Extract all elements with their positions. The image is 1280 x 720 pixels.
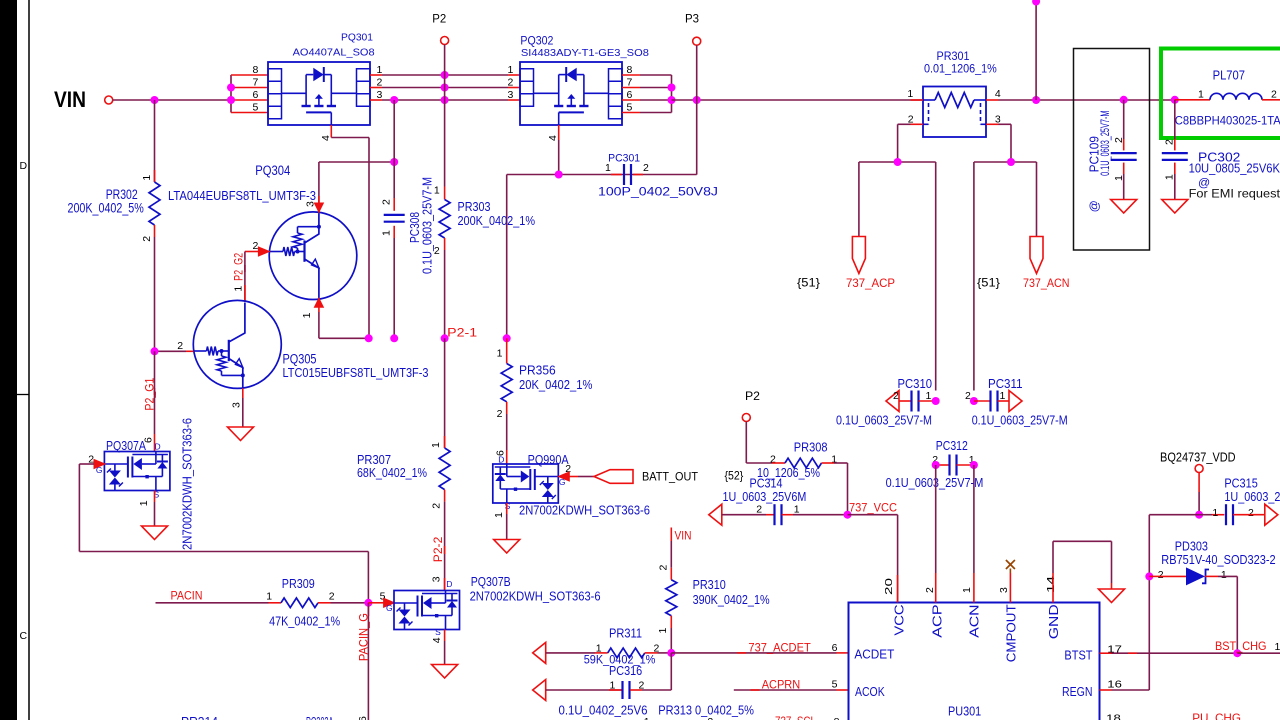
svg-text:1: 1	[301, 312, 313, 318]
pin number PR356 pin2	[497, 408, 503, 420]
pin number CMPOUT 3	[998, 587, 1010, 593]
pin name ACN	[968, 604, 982, 637]
pin letter PQ307B D	[446, 579, 452, 589]
pin number PU301 pin6	[832, 642, 838, 654]
svg-text:VIN: VIN	[675, 529, 692, 543]
label PQ301 refdes	[341, 33, 373, 44]
resistor PR309	[281, 598, 318, 608]
svg-text:68K_0402_1%: 68K_0402_1%	[357, 465, 427, 480]
svg-text:737_VCC: 737_VCC	[849, 501, 897, 515]
capacitor PC301	[611, 164, 643, 185]
pin number PQ307A pin2	[88, 454, 94, 466]
pin letter PQ307B S	[435, 627, 441, 637]
label PR308 refdes	[794, 440, 828, 454]
P3 terminal circle	[693, 37, 701, 45]
pin stub PC308 pin2	[393, 198, 395, 211]
pin numbers PC312	[932, 454, 975, 466]
pin stub PC109 pin1	[1123, 163, 1125, 200]
svg-text:PQ990A: PQ990A	[528, 452, 569, 467]
svg-text:ACPRN: ACPRN	[762, 678, 801, 692]
pin numbers PC315	[1212, 507, 1254, 519]
pin number PR309 pin2	[329, 590, 335, 602]
svg-text:1: 1	[430, 442, 442, 448]
junction dot 737_VCC node	[844, 511, 852, 519]
net label VIN (red)	[675, 529, 692, 543]
pin numbers PC314	[756, 504, 800, 516]
svg-text:PQ307B: PQ307B	[471, 574, 511, 589]
diode PD303 (schottky)	[1149, 567, 1237, 585]
svg-text:PU301: PU301	[948, 703, 981, 718]
label PR310 refdes	[693, 578, 726, 592]
transistor PQ305 (LTC015EUBFS8TL digital NPN)	[193, 300, 281, 388]
label PL707 refdes	[1213, 68, 1245, 82]
svg-text:P2: P2	[432, 14, 446, 26]
svg-text:BST_CHG: BST_CHG	[1215, 639, 1267, 653]
label PQ990A value	[519, 503, 650, 518]
label PR301 value	[924, 62, 997, 76]
junction dot PC310 pin1	[932, 397, 940, 405]
junction dot PQ302 pin4 node	[555, 171, 563, 179]
svg-text:0.1U_0603_25V7-M: 0.1U_0603_25V7-M	[420, 177, 435, 274]
svg-text:PQ302: PQ302	[520, 35, 553, 47]
ground symbol PQ307B source	[432, 665, 458, 679]
label PC308 refdes	[407, 212, 422, 243]
svg-text:2N7002KDWH_SOT363-6: 2N7002KDWH_SOT363-6	[519, 503, 650, 518]
svg-text:390K_0402_1%: 390K_0402_1%	[693, 593, 770, 607]
inductor PL707	[1175, 93, 1280, 99]
label PQ305 value	[283, 365, 429, 380]
svg-text:PQ301: PQ301	[341, 33, 373, 44]
svg-text:2: 2	[434, 245, 440, 257]
pin stub PR301 pin4	[986, 99, 1074, 101]
label For EMI request	[1189, 189, 1280, 201]
svg-text:20: 20	[883, 578, 895, 595]
wire GND to ground	[1053, 541, 1112, 589]
page left black margin bar	[0, 0, 17, 720]
svg-text:C: C	[20, 630, 28, 642]
pin stub PQ305 pin3	[242, 388, 244, 427]
svg-text:2: 2	[643, 162, 649, 174]
label PR356 refdes	[519, 363, 556, 378]
net label PU_CHG (partial)	[1192, 711, 1241, 720]
pin number PQ990A pin6	[495, 450, 507, 456]
pin number PQ990A pin2	[565, 463, 571, 475]
pin stub ACP	[935, 465, 937, 603]
svg-text:2: 2	[253, 240, 259, 252]
wire P2 lower to PR308	[746, 422, 772, 464]
net label P2-2	[433, 537, 445, 563]
port BATT_OUT flag	[594, 470, 633, 484]
svg-text:G: G	[386, 603, 393, 613]
svg-text:ACOK: ACOK	[855, 685, 885, 699]
pin number PR307 pin1	[430, 442, 442, 448]
label PC311 value	[972, 414, 1068, 428]
label PC310 value	[836, 414, 932, 428]
pin number PR310 pin2	[658, 565, 670, 571]
wire P2 vertical	[444, 45, 446, 187]
svg-text:2N7002KDWH_SOT363-6: 2N7002KDWH_SOT363-6	[180, 418, 195, 550]
label PC314 refdes	[750, 477, 783, 491]
resistor PR303	[439, 200, 450, 239]
svg-text:PC312: PC312	[936, 439, 968, 453]
pin number PR308 pin2	[770, 454, 776, 466]
capacitor PC302	[1162, 153, 1188, 160]
svg-text:1: 1	[232, 286, 244, 292]
pin name BTST	[1064, 649, 1092, 663]
label PR313 value	[658, 704, 754, 718]
svg-text:BTST: BTST	[1064, 649, 1092, 663]
port 737_ACP arrow	[852, 237, 865, 274]
pin stub PQ990A pin1	[506, 503, 508, 540]
pin stub PR302 pin2	[154, 225, 156, 351]
label PC316 refdes	[609, 664, 642, 678]
svg-text:1: 1	[907, 88, 913, 100]
svg-text:D: D	[155, 442, 161, 452]
wire bracket PQ301 left pins	[227, 75, 268, 113]
label PC310 refdes	[898, 377, 933, 391]
net label VIN (input)	[54, 87, 86, 112]
pin number PC109 pin2	[1113, 137, 1125, 143]
wire PQ304 emitter to P2-1 row	[319, 312, 369, 338]
port arrow PR311 pin1	[533, 642, 546, 663]
pin numbers PC301	[605, 162, 649, 174]
pin number PR302 pin1	[141, 175, 153, 181]
transistor PQ301 (P-MOSFET AO4407AL_SO8)	[268, 62, 370, 125]
svg-text:200K_0402_5%: 200K_0402_5%	[68, 201, 144, 216]
pin stub PQ990A pin6	[506, 450, 508, 464]
ground symbol PC109	[1111, 200, 1137, 214]
net label ACPRN	[751, 678, 801, 692]
pin number PQ307A pin1	[138, 500, 150, 506]
svg-text:2: 2	[1248, 507, 1254, 519]
svg-text:2: 2	[707, 716, 713, 720]
svg-text:1: 1	[961, 587, 973, 593]
pin number VCC 20	[883, 578, 895, 595]
svg-text:RB751V-40_SOD323-2: RB751V-40_SOD323-2	[1161, 553, 1275, 567]
pin number PC302 pin2	[1164, 139, 1176, 145]
pin stub PQ307A pin1	[154, 491, 156, 527]
pin letter PQ990A S	[505, 501, 511, 511]
label PC308 value	[420, 177, 435, 274]
label PC301 refdes	[608, 153, 640, 165]
svg-text:16: 16	[1107, 679, 1122, 691]
sheet border line	[17, 0, 29, 720]
transistor PQ304 (LTA044EUBFS8TL digital NPN)	[269, 212, 357, 300]
port 737_ACN arrow	[1030, 237, 1043, 274]
svg-text:6: 6	[357, 716, 369, 720]
svg-text:PC311: PC311	[988, 377, 1023, 391]
pin number REGN 16	[1107, 679, 1122, 691]
label PQ302 refdes	[520, 35, 553, 47]
pin number PR311 pin1	[596, 643, 602, 655]
svg-text:1: 1	[266, 590, 272, 602]
net label BST_CHG	[1128, 639, 1267, 653]
label PR309 refdes	[282, 576, 315, 591]
label PQ305 refdes	[283, 352, 317, 367]
port arrow PC314 pin2	[709, 504, 722, 525]
net label 737_ACDET	[737, 641, 811, 655]
net label P2_G2	[233, 253, 245, 281]
svg-text:ACN: ACN	[968, 604, 982, 637]
pin number PQ301 pin4	[320, 135, 332, 141]
svg-text:D: D	[20, 160, 28, 172]
net label P2-1	[447, 327, 477, 339]
pin numbers PC316	[610, 680, 645, 692]
op-amp/controller PU301 (BQ24737) box	[849, 603, 1100, 720]
pin number 6 (partial)	[357, 716, 369, 720]
net label 737_ACP	[846, 276, 895, 290]
svg-text:P2: P2	[745, 389, 760, 403]
resistor PR308	[785, 458, 822, 468]
pin number PR303 pin2	[434, 245, 440, 257]
label PR307 refdes	[357, 452, 391, 467]
svg-text:1: 1	[794, 504, 800, 516]
label PQ301 value	[293, 48, 375, 59]
junction dot ACN row	[1007, 158, 1015, 166]
pin number PQ304 pin3	[305, 201, 317, 207]
label PC302 value	[1189, 161, 1280, 175]
wire REGN riser	[1148, 515, 1150, 690]
pin stub PR311 pin2	[645, 652, 672, 654]
label PC109 value	[1098, 111, 1112, 176]
pin stub PC109 pin2	[1123, 100, 1125, 151]
pin number PQ305 pin3	[231, 402, 243, 408]
pin number PC308 pin1	[381, 230, 393, 236]
pin stub PC302 pin2	[1174, 100, 1176, 151]
svg-text:14: 14	[1045, 576, 1057, 593]
pin stub PR356 pin2	[506, 402, 508, 450]
pin name REGN	[1062, 685, 1093, 699]
label PR311 value	[584, 653, 656, 667]
pin letter PQ990A G	[559, 477, 566, 487]
pin stub PQ305 pin1	[244, 285, 246, 302]
ground symbol PC302	[1162, 200, 1188, 214]
net label PACIN	[171, 588, 203, 602]
pin numbers PR313 (partial)	[644, 716, 714, 720]
svg-text:P2-2: P2-2	[433, 537, 445, 563]
label PC314 value	[723, 490, 807, 504]
label PR308 value	[757, 466, 820, 480]
pin number PR303 pin1	[434, 184, 440, 196]
wire PQ304 collector row	[319, 161, 394, 163]
junction dot collector row end	[390, 158, 398, 166]
label PQ307B value	[470, 589, 601, 604]
pin name ACOK	[855, 685, 885, 699]
svg-text:GND: GND	[1047, 604, 1061, 639]
svg-text:S: S	[505, 501, 511, 511]
svg-text:PC301: PC301	[608, 153, 640, 165]
label PR314 (partial)	[181, 714, 218, 720]
wire gate net upper row	[507, 175, 697, 339]
pin number PQ307A pin6	[143, 437, 155, 443]
svg-text:SI4483ADY-T1-GE3_SO8: SI4483ADY-T1-GE3_SO8	[521, 47, 649, 59]
svg-text:1U_0603_2: 1U_0603_2	[1224, 490, 1280, 504]
pin numbers PQ301 left	[253, 64, 259, 114]
svg-text:2N7002KDWH_SOT363-6: 2N7002KDWH_SOT363-6	[470, 589, 601, 604]
pin stub PQ305 pin2	[155, 350, 194, 352]
pin stub PR301 pin2	[898, 124, 923, 162]
pin number PQ304 pin1	[301, 312, 313, 318]
junction dot PACIN_G node	[364, 599, 372, 607]
pin stub PQ307B pin4	[444, 630, 446, 665]
svg-text:@: @	[1198, 175, 1210, 189]
svg-text:0.1U_0603_25V7-M: 0.1U_0603_25V7-M	[836, 414, 932, 428]
svg-text:PACIN: PACIN	[171, 588, 203, 602]
svg-text:6: 6	[832, 642, 838, 654]
ground symbol PQ305 emitter	[228, 427, 254, 441]
svg-text:PR310: PR310	[693, 578, 726, 592]
svg-text:D: D	[498, 455, 504, 465]
junction dot ACDET node	[667, 649, 675, 657]
wire VIN stub down	[670, 528, 672, 568]
svg-text:0.01_1206_1%: 0.01_1206_1%	[924, 62, 997, 76]
svg-text:PR302: PR302	[106, 187, 138, 202]
EMI option black box	[1074, 49, 1150, 251]
label PC311 refdes	[988, 377, 1023, 391]
label PC312 refdes	[936, 439, 968, 453]
pin stub CMPOUT with no-connect	[1009, 569, 1011, 603]
svg-text:P2_G2: P2_G2	[233, 253, 245, 281]
pin name GND	[1047, 604, 1061, 639]
svg-text:5: 5	[253, 101, 259, 113]
pin stub PR307 pin1	[444, 338, 446, 448]
svg-text:1: 1	[1275, 641, 1280, 653]
wire PACIN_G down	[367, 603, 369, 720]
svg-text:7: 7	[627, 76, 633, 88]
resistor PR356	[501, 364, 512, 402]
pin name CMPOUT	[1005, 604, 1019, 662]
junction dot ACP row	[894, 158, 902, 166]
junction dot PC302/PL707 tap	[1171, 96, 1179, 104]
wire ACDET row left	[546, 652, 595, 654]
pin stub PR308 pin1	[822, 463, 848, 515]
net label 737_SCL (partial)	[775, 714, 816, 720]
label PR311 refdes	[609, 627, 642, 641]
label BATT_OUT	[642, 470, 699, 484]
pin stub BTST	[1100, 652, 1238, 654]
pin number PQ304 pin2	[253, 240, 259, 252]
net label 737_VCC	[849, 501, 897, 515]
svg-text:1: 1	[493, 512, 505, 518]
wire ACPRN	[734, 689, 849, 691]
pin number PC109 pin1	[1113, 175, 1125, 181]
svg-text:PR308: PR308	[794, 440, 828, 454]
svg-text:100P_0402_50V8J: 100P_0402_50V8J	[598, 185, 718, 199]
P2 lower terminal circle	[742, 414, 750, 422]
label PL707 value	[1175, 114, 1280, 128]
svg-text:8: 8	[253, 64, 259, 76]
pin stub PQ304 pin3	[314, 162, 323, 213]
pin stub PQ307B pin3	[444, 578, 446, 591]
svg-text:LTA044EUBFS8TL_UMT3F-3: LTA044EUBFS8TL_UMT3F-3	[168, 188, 316, 203]
wire BTST to edge	[1237, 652, 1280, 654]
svg-text:LTC015EUBFS8TL_UMT3F-3: LTC015EUBFS8TL_UMT3F-3	[283, 365, 429, 380]
junction dots P2-1 row	[365, 334, 511, 342]
svg-text:18: 18	[1106, 713, 1121, 720]
transistor PQ302 (P-MOSFET SI4483ADY)	[520, 62, 622, 125]
capacitor PC109	[1111, 153, 1137, 160]
svg-text:1: 1	[644, 716, 650, 720]
wire VIN to PQ301	[113, 99, 231, 101]
pin stub VCC	[897, 575, 899, 603]
pin number 18 (partial)	[1106, 713, 1121, 720]
label P2 (lower)	[745, 389, 760, 403]
label PQ990A refdes	[528, 452, 569, 467]
label PD303 refdes	[1175, 540, 1208, 554]
label PQ303A (partial)	[306, 714, 333, 720]
svg-text:1: 1	[605, 162, 611, 174]
svg-text:1U_0603_25V6M: 1U_0603_25V6M	[723, 490, 807, 504]
svg-text:PD303: PD303	[1175, 540, 1208, 554]
pin number GND 14	[1045, 576, 1057, 593]
svg-text:1: 1	[1221, 569, 1227, 581]
svg-text:PQ303A: PQ303A	[306, 714, 333, 720]
pin number PR309 pin1	[266, 590, 272, 602]
pin stub GND	[1052, 573, 1054, 603]
pin number PR311 pin2	[654, 643, 660, 655]
svg-text:D: D	[446, 579, 452, 589]
wire PQ305 base column down to PQ307A	[154, 351, 156, 451]
svg-text:3: 3	[431, 576, 443, 582]
svg-text:ACDET: ACDET	[854, 648, 894, 662]
pin number PQ305 pin1	[232, 286, 244, 292]
pin stub PR303 pin1	[444, 187, 446, 200]
wire row3 to PR301	[672, 99, 924, 101]
svg-text:4: 4	[995, 88, 1001, 100]
pin number ACN 1	[961, 587, 973, 593]
label PR307 value	[357, 465, 427, 480]
pin stub PR301 pin1	[911, 99, 924, 101]
svg-text:2: 2	[1271, 88, 1277, 100]
label PQ302 value	[521, 47, 649, 59]
pin stub PR301 pin3	[986, 124, 1011, 162]
capacitor PC310	[899, 391, 936, 412]
pin name VCC	[893, 604, 907, 635]
transistor PQ990A (2N7002KDWH dual N-MOSFET)	[493, 464, 559, 503]
junction dots PC312	[932, 461, 978, 469]
svg-text:4: 4	[547, 135, 559, 141]
label {52}	[725, 469, 744, 483]
pin stub PR309 pin1	[269, 602, 282, 604]
svg-text:737_SCL: 737_SCL	[775, 714, 816, 720]
capacitor PC314	[722, 504, 848, 525]
svg-text:AO4407AL_SO8: AO4407AL_SO8	[293, 48, 375, 59]
wire bracket PQ302 right pins	[622, 75, 676, 113]
port arrow PC311 pin1	[1009, 391, 1022, 412]
svg-text:3: 3	[231, 402, 243, 408]
pin number BTST 17	[1107, 644, 1122, 656]
wire ACP sense row	[859, 162, 936, 391]
svg-text:2: 2	[377, 76, 383, 88]
wire 737_VCC to VCC pin	[848, 515, 898, 603]
junction dot VIN column	[151, 96, 159, 104]
label {51} ACN	[977, 276, 1000, 290]
svg-text:0.1U_0603_25V7-M: 0.1U_0603_25V7-M	[972, 414, 1068, 428]
wire VDD down	[1198, 473, 1200, 515]
label PR302 value	[68, 201, 144, 216]
svg-text:C8BBPH403025-1TA: C8BBPH403025-1TA	[1175, 114, 1280, 128]
svg-text:2: 2	[965, 390, 971, 402]
svg-text:For EMI request: For EMI request	[1189, 189, 1280, 201]
label PQ307A value vertical	[180, 418, 195, 550]
pin number PQ307B pin5	[380, 590, 386, 602]
pin stub PR303 pin2	[444, 238, 446, 338]
wire PD303 cathode down to BTST	[1236, 576, 1238, 653]
pin letter PQ307A S	[154, 489, 160, 499]
pin stub PR309 pin2	[318, 602, 368, 604]
svg-text:2: 2	[508, 76, 514, 88]
svg-text:1: 1	[1212, 507, 1218, 519]
